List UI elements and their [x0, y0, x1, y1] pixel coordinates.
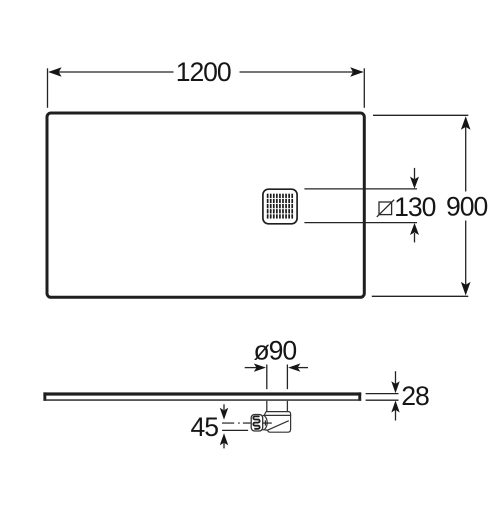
dimension 45: bottom arrow: [223, 443, 225, 448]
siphon: pipe walls: [266, 401, 268, 411]
dimension o90: left arrow: [245, 367, 257, 369]
dimension 130: top arrow: [414, 168, 416, 179]
dimension 1200: extension line right: [363, 68, 365, 108]
siphon: corrugated connector: [251, 415, 263, 432]
svg-text:130: 130: [394, 192, 435, 222]
drain square (top view): [263, 189, 297, 224]
tray outline (top view): [47, 113, 364, 297]
centerline (dash-dot): [222, 422, 251, 424]
dimension 900: extension line top: [373, 114, 468, 116]
dimension 45: extension line: [222, 429, 248, 431]
siphon: collar: [264, 412, 291, 416]
svg-text:900: 900: [446, 191, 487, 221]
dimension 900: extension line bottom: [372, 295, 469, 297]
dimension 28: bottom arrow: [395, 410, 397, 421]
siphon: diagonal: [267, 421, 289, 431]
dimension o90: extension line left: [266, 365, 268, 390]
dimension 1200: dimension line: [50, 71, 174, 73]
drain grid bars: [267, 194, 293, 219]
centerline crosshair at siphon outlet: [263, 420, 272, 425]
siphon: dome arc: [263, 415, 268, 430]
dimension o90: right arrow: [298, 367, 308, 369]
siphon: body: [265, 415, 291, 433]
svg-text:1200: 1200: [176, 57, 231, 87]
dimension 130: extension line bottom: [304, 222, 417, 224]
dimension 28: extension line bottom: [366, 399, 399, 401]
tray profile (side view): [43, 392, 361, 400]
dimension 1200: extension line left: [47, 68, 49, 108]
square symbol for 130: [379, 202, 392, 215]
svg-text:ø90: ø90: [253, 335, 296, 365]
dimension 900: dimension line: [465, 118, 467, 192]
dimension 900: top arrowhead: [461, 116, 471, 130]
dimension o90: extension line right: [286, 365, 288, 390]
svg-text:28: 28: [401, 381, 429, 411]
dimension 1200: left arrowhead: [48, 67, 61, 76]
dimension 45: top arrow: [223, 404, 225, 410]
dimension 1200: right arrowhead: [350, 67, 363, 76]
dimension 130: bottom arrow: [414, 233, 416, 242]
dimension 28: extension line top: [366, 393, 399, 395]
dimension 900: bottom arrowhead: [461, 282, 471, 296]
dimension 28: top arrow: [395, 371, 397, 384]
dimension 130: extension line top: [304, 188, 417, 190]
svg-text:45: 45: [190, 412, 218, 442]
